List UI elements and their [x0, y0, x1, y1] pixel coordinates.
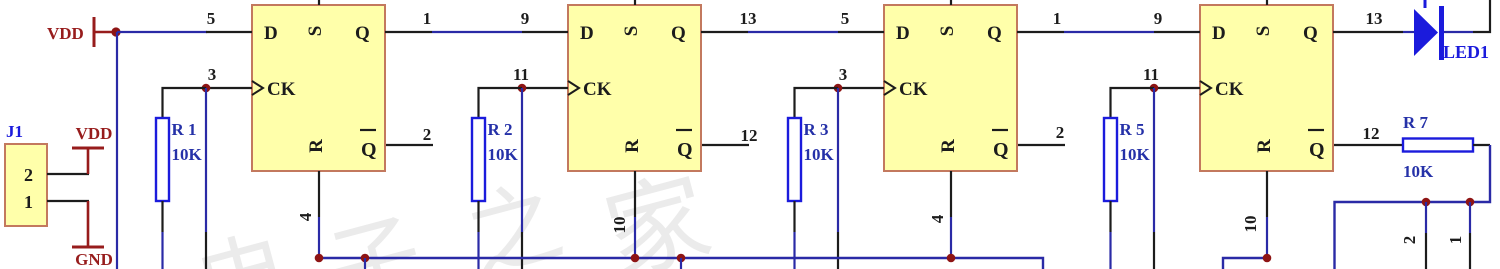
svg-text:CK: CK — [1215, 79, 1244, 100]
svg-text:R: R — [1254, 139, 1275, 153]
wire VDD to FF1 D pin — [117, 31, 207, 33]
pin Q-bar (pin 2) of U1 — [386, 144, 433, 146]
svg-text:4: 4 — [928, 214, 947, 223]
svg-text:12: 12 — [741, 126, 758, 145]
wire U3 Q to U4 D — [1064, 31, 1154, 33]
svg-text:3: 3 — [839, 65, 848, 84]
svg-text:11: 11 — [1143, 65, 1159, 84]
wire CK node down (x=838) — [837, 88, 839, 232]
wire U2 Q to U3 D — [748, 31, 838, 33]
svg-text:R 2: R 2 — [488, 120, 513, 139]
junction dot bus tap 1 — [361, 254, 370, 263]
svg-text:2: 2 — [423, 125, 432, 144]
pin Q (pin 1) of U1 — [385, 31, 432, 33]
pin D (pin 9) of U4 — [1154, 31, 1200, 33]
wire pin1 down — [1469, 202, 1471, 233]
svg-text:Q: Q — [987, 23, 1002, 44]
svg-text:S: S — [1253, 26, 1274, 37]
svg-text:10K: 10K — [172, 145, 203, 164]
wire CK node down (x=522) — [521, 88, 523, 232]
svg-text:5: 5 — [207, 9, 216, 28]
svg-text:Q: Q — [993, 139, 1009, 161]
svg-text:9: 9 — [1154, 9, 1163, 28]
resistor R3 10K — [788, 118, 835, 201]
pin R (pin 10) of U4 — [1266, 171, 1268, 217]
svg-text:Q: Q — [361, 139, 377, 161]
wire R pin of U2 to bottom bus — [634, 217, 636, 258]
wire CK node down (x=1154) — [1153, 88, 1155, 232]
resistor R2 10K — [472, 118, 519, 201]
junction dot U4 R node — [1263, 254, 1272, 263]
pin Q (pin 13) of U2 — [701, 31, 748, 33]
svg-text:R: R — [938, 139, 959, 153]
wire R2 bottom down — [477, 201, 479, 232]
resistor R5 10K — [1104, 118, 1151, 201]
svg-text:J1: J1 — [6, 122, 23, 141]
svg-text:D: D — [580, 23, 594, 44]
svg-text:CK: CK — [583, 79, 612, 100]
junction dot bus at U2 R — [631, 254, 640, 263]
pin Q (pin 1) of U3 — [1017, 31, 1064, 33]
svg-text:10: 10 — [610, 217, 629, 234]
svg-text:Q: Q — [1309, 139, 1325, 161]
svg-text:1: 1 — [1053, 9, 1062, 28]
pin CK (pin 11) of U4 — [1154, 87, 1200, 89]
svg-text:Q: Q — [671, 23, 686, 44]
wire pin2 down — [1425, 202, 1427, 233]
wire bus tap 2 down — [680, 258, 682, 269]
svg-text:10: 10 — [1241, 216, 1260, 233]
connector J1 — [5, 122, 47, 226]
svg-text:12: 12 — [1363, 124, 1380, 143]
pin CK (pin 3) of U3 — [838, 87, 884, 89]
pin S stub of U3 — [950, 0, 952, 5]
junction dot bus at U1 R — [315, 254, 324, 263]
svg-text:S: S — [621, 26, 642, 37]
wire R pin of U4 down — [1266, 217, 1268, 258]
pin Q (pin 13) of U4 — [1333, 31, 1403, 33]
junction dot CK node U4 — [1150, 84, 1159, 93]
svg-text:1: 1 — [24, 192, 33, 212]
svg-text:10K: 10K — [488, 145, 519, 164]
wire R3 bottom down — [793, 201, 795, 232]
svg-text:S: S — [305, 26, 326, 37]
power symbol VDD (at J1) — [72, 124, 112, 174]
pin R (pin 10) of U2 — [634, 171, 636, 217]
svg-text:VDD: VDD — [47, 24, 84, 43]
wire J1 pin2 to VDD — [47, 173, 89, 175]
wire U4 Q pin13 to LED1 — [1403, 31, 1414, 33]
pin CK (pin 11) of U2 — [522, 87, 568, 89]
svg-text:S: S — [937, 26, 958, 37]
svg-text:R 5: R 5 — [1120, 120, 1145, 139]
junction dot CK node U1 — [202, 84, 211, 93]
LED LED1 — [1414, 0, 1489, 62]
wire CK node down (x=206) — [205, 88, 207, 232]
wire U4 R node to lower-left — [1223, 258, 1267, 269]
wire bus tap 1 down — [364, 258, 366, 269]
pin Q-bar (pin 12) of U4 — [1334, 144, 1403, 146]
svg-text:GND: GND — [75, 250, 113, 269]
svg-text:D: D — [896, 23, 910, 44]
pin Q-bar (pin 2) of U3 — [1018, 144, 1065, 146]
svg-text:CK: CK — [899, 79, 928, 100]
svg-text:R: R — [306, 139, 327, 153]
wire VDD vertical rail — [116, 32, 118, 269]
pin S stub of U2 — [634, 0, 636, 5]
pin D (pin 5) of U3 — [838, 31, 884, 33]
svg-text:1: 1 — [423, 9, 432, 28]
svg-text:Q: Q — [677, 139, 693, 161]
svg-text:D: D — [1212, 23, 1226, 44]
svg-text:R 3: R 3 — [804, 120, 829, 139]
D flip-flop U3 — [884, 5, 1017, 171]
D flip-flop U2 — [568, 5, 701, 171]
svg-text:LED1: LED1 — [1443, 42, 1489, 62]
svg-text:2: 2 — [1056, 123, 1065, 142]
wire bottom reset bus — [320, 258, 1043, 269]
svg-text:10K: 10K — [1120, 145, 1151, 164]
svg-text:10K: 10K — [804, 145, 835, 164]
pin Q-bar (pin 12) of U2 — [702, 144, 749, 146]
wire R7 right terminal — [1473, 144, 1490, 146]
junction dot CK node U2 — [518, 84, 527, 93]
svg-text:Q: Q — [1303, 23, 1318, 44]
svg-text:R: R — [622, 139, 643, 153]
power symbol VDD (top left) — [47, 17, 116, 47]
junction dot node pin2 — [1422, 198, 1431, 207]
svg-text:2: 2 — [1400, 236, 1419, 245]
ground symbol GND (at J1) — [72, 201, 113, 269]
wire R pin of U1 to bottom bus — [318, 217, 320, 258]
watermark — [186, 161, 722, 269]
wire CK junction to resistor R2 — [479, 88, 523, 118]
svg-text:11: 11 — [513, 65, 529, 84]
pin CK (pin 3) of U1 — [206, 87, 252, 89]
wire R5 bottom down — [1109, 201, 1111, 232]
wire CK junction to resistor R5 — [1111, 88, 1155, 118]
svg-text:R 7: R 7 — [1403, 113, 1429, 132]
pin R (pin 4) of U3 — [950, 171, 952, 217]
junction dot node pin1 — [1466, 198, 1475, 207]
wire CK junction to resistor R1 — [163, 88, 207, 118]
wire LED1 cathode right — [1444, 31, 1473, 33]
svg-text:3: 3 — [208, 65, 217, 84]
svg-text:D: D — [264, 23, 278, 44]
svg-text:R 1: R 1 — [172, 120, 197, 139]
pin D (pin 5) of U1 — [206, 31, 252, 33]
pin R (pin 4) of U1 — [318, 171, 320, 217]
wire R1 bottom down — [161, 201, 163, 232]
svg-text:1: 1 — [1446, 236, 1465, 245]
wire R7 right down to node row — [1335, 145, 1491, 269]
resistor R1 10K — [156, 118, 203, 201]
wire U1 Q to U2 D — [432, 31, 522, 33]
svg-text:Q: Q — [355, 23, 370, 44]
junction dot at VDD node — [111, 27, 120, 36]
junction dot bus tap 2 — [677, 254, 686, 263]
junction dot CK node U3 — [834, 84, 843, 93]
wire J1 pin1 to GND — [47, 200, 89, 202]
svg-text:5: 5 — [841, 9, 850, 28]
svg-text:9: 9 — [521, 9, 530, 28]
pin S stub of U4 — [1266, 0, 1268, 5]
D flip-flop U4 — [1200, 5, 1333, 171]
pin S stub of U1 — [318, 0, 320, 5]
resistor R7 10K (horizontal) — [1403, 113, 1473, 181]
svg-text:CK: CK — [267, 79, 296, 100]
svg-text:10K: 10K — [1403, 162, 1434, 181]
svg-text:2: 2 — [24, 165, 33, 185]
wire R pin of U3 to bottom bus — [950, 217, 952, 258]
svg-text:13: 13 — [1366, 9, 1383, 28]
wire to top right corner — [1473, 0, 1490, 32]
svg-text:VDD: VDD — [76, 124, 113, 143]
svg-text:13: 13 — [740, 9, 757, 28]
pin D (pin 9) of U2 — [522, 31, 568, 33]
junction dot bus at U3 R — [947, 254, 956, 263]
svg-text:4: 4 — [296, 212, 315, 221]
wire CK junction to resistor R3 — [795, 88, 839, 118]
D flip-flop U1 — [252, 5, 385, 171]
